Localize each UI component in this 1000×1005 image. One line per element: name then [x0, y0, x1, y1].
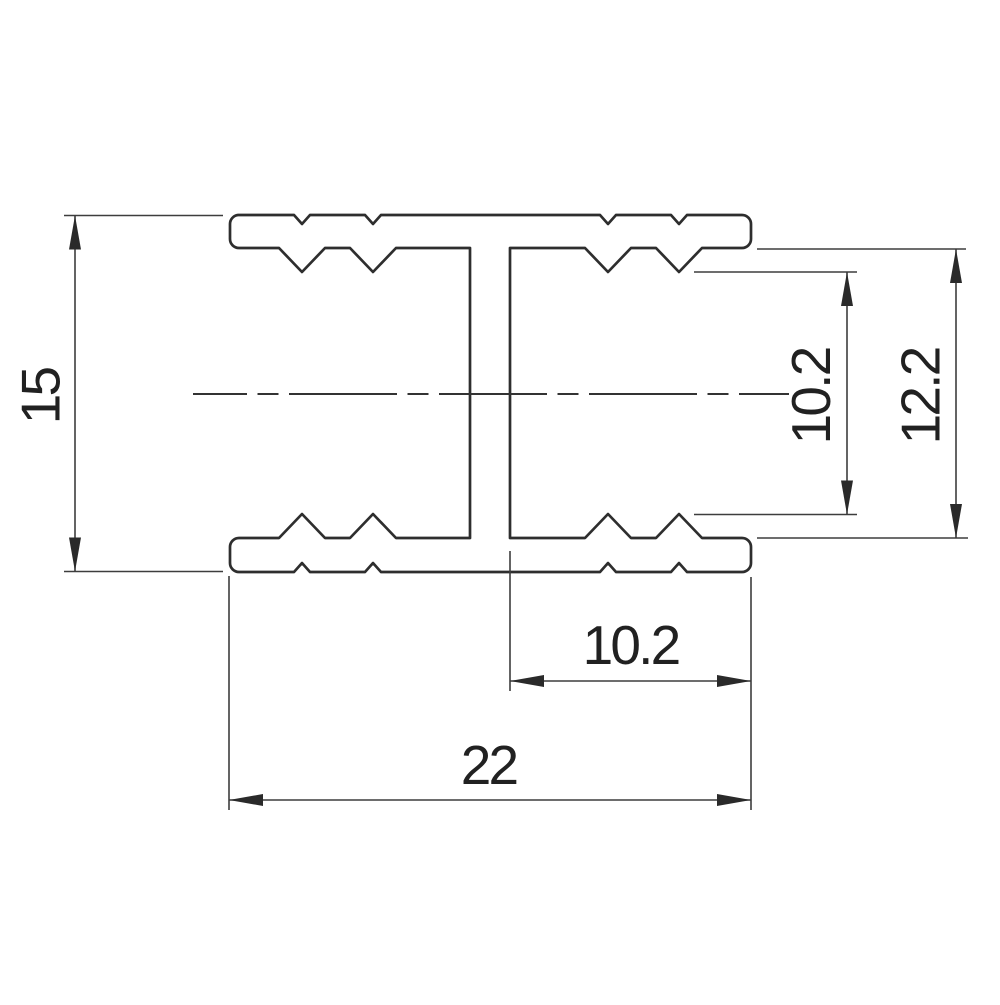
dim 12.2: top extension line — [757, 248, 966, 250]
dim 15: arrowhead down — [69, 538, 81, 572]
dim 22: dimension line — [229, 799, 751, 801]
dim 10.2 right: arrowhead up — [841, 272, 853, 306]
svg-text:10.2: 10.2 — [780, 348, 842, 444]
dim 10.2 right: bottom extension line — [694, 514, 857, 516]
svg-text:22: 22 — [461, 734, 517, 796]
svg-text:15: 15 — [10, 368, 72, 425]
horizontal centerline (dash-dot axis) — [193, 393, 789, 395]
dim 15: dimension line — [74, 216, 76, 572]
dim 15: top extension line — [64, 215, 223, 217]
dim 12.2: dimension line — [955, 249, 957, 538]
svg-text:10.2: 10.2 — [583, 614, 679, 676]
dim 10.2 bottom: arrowhead left — [510, 675, 544, 687]
dim 10.2 bottom: right extension line (shared with dim 22) — [750, 577, 752, 810]
dim 10.2 bottom: dimension line — [510, 680, 751, 682]
svg-text:12.2: 12.2 — [890, 348, 952, 444]
dim 22: arrowhead left — [229, 794, 263, 806]
dim 10.2 bottom: arrowhead right — [717, 675, 751, 687]
dim 10.2 right: dimension line — [846, 272, 848, 515]
dim 15: bottom extension line — [64, 571, 223, 573]
dim 10.2 bottom: left extension line — [509, 551, 511, 691]
dim 12.2: arrowhead up — [950, 249, 962, 283]
profile outline (H-extrusion body) — [230, 215, 751, 572]
dim 12.2: bottom extension line — [757, 537, 968, 539]
dim 12.2: arrowhead down — [950, 504, 962, 538]
dim 15: arrowhead up — [69, 216, 81, 250]
dim 22: arrowhead right — [717, 794, 751, 806]
dim 10.2 right: arrowhead down — [841, 481, 853, 515]
dim 22: left extension line — [228, 576, 230, 810]
dim 10.2 right: top extension line — [694, 271, 857, 273]
